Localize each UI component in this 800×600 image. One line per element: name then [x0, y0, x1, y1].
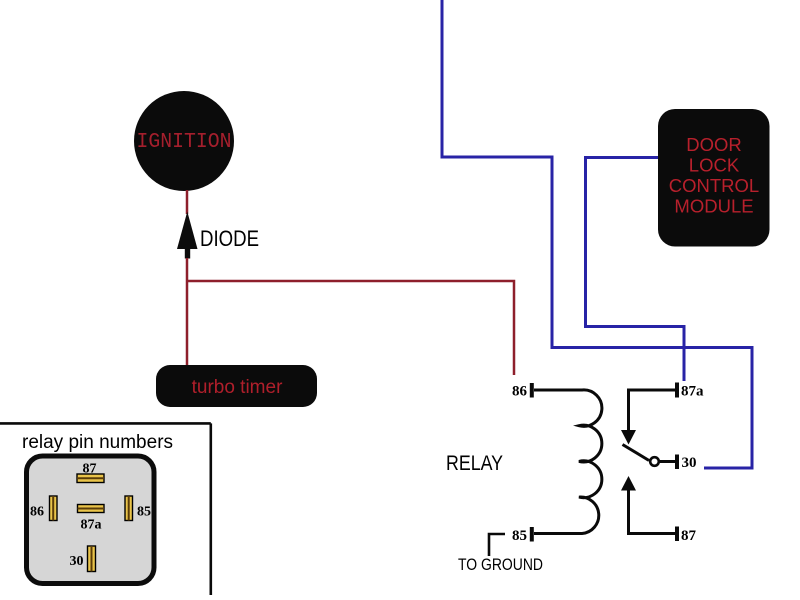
svg-text:IGNITION: IGNITION [137, 131, 232, 154]
door lock control module U2 [658, 109, 770, 247]
svg-text:85: 85 [137, 505, 151, 520]
pin 87a terminal (center) [78, 505, 105, 513]
wire blue from top edge to pin 30 [442, 0, 752, 468]
pin 87 tick [675, 527, 679, 542]
svg-text:86: 86 [30, 505, 44, 520]
svg-text:TO GROUND: TO GROUND [458, 555, 543, 574]
pin 87a tick [675, 383, 679, 398]
ignition circle [134, 91, 234, 191]
wire red ignition to diode [186, 190, 189, 214]
svg-text:30: 30 [70, 554, 84, 569]
svg-text:85: 85 [512, 528, 527, 544]
switch arm lower: 87 branch [629, 490, 676, 534]
svg-text:87a: 87a [681, 384, 704, 400]
wire blue from door lock module to pin 87a [586, 158, 685, 382]
wire red branch to relay pin 86 [187, 281, 514, 375]
svg-text:30: 30 [682, 455, 697, 471]
svg-text:MODULE: MODULE [674, 196, 753, 217]
relay pin numbers box [0, 422, 211, 425]
svg-text:relay pin numbers: relay pin numbers [22, 432, 173, 453]
svg-text:CONTROL: CONTROL [669, 175, 759, 196]
svg-text:LOCK: LOCK [689, 155, 740, 176]
svg-text:RELAY: RELAY [446, 452, 503, 475]
diode D1 [177, 212, 198, 250]
wire to ground [489, 534, 505, 556]
switch arm upper: 87a branch [629, 390, 676, 431]
svg-text:DOOR: DOOR [686, 134, 742, 155]
pin 86 tick [530, 383, 534, 398]
turbo timer box [156, 365, 317, 407]
svg-text:turbo timer: turbo timer [192, 377, 283, 398]
pin 85 tick [530, 527, 534, 542]
switch blade [623, 445, 650, 461]
svg-text:DIODE: DIODE [200, 226, 259, 251]
svg-text:87a: 87a [81, 518, 102, 533]
relay body outline [27, 456, 155, 584]
wire red diode to turbo timer [186, 258, 189, 367]
svg-text:87: 87 [681, 528, 697, 544]
pin 30 lead [660, 460, 676, 463]
switch contact circle [650, 457, 659, 466]
svg-text:86: 86 [512, 384, 528, 400]
relay coil K1 [534, 390, 602, 534]
